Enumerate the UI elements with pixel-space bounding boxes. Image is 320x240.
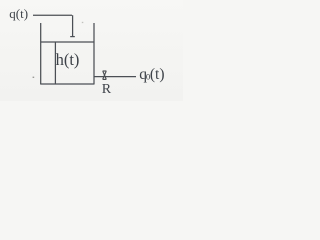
- svg-text:R: R: [102, 82, 112, 97]
- svg-text:(t): (t): [150, 66, 165, 83]
- svg-text:q(t): q(t): [9, 6, 28, 21]
- svg-text:h(t): h(t): [56, 50, 80, 69]
